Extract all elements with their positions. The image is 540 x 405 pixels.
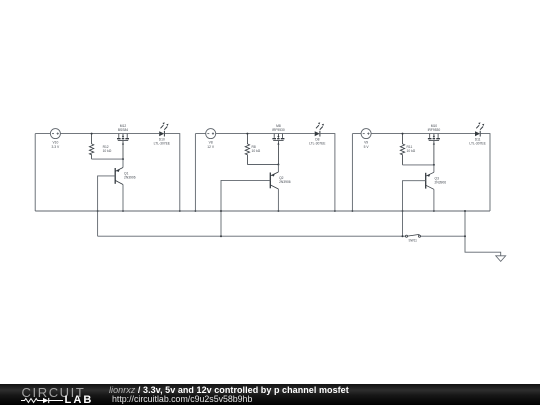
junction Q2 base drop crossing rail (220, 210, 222, 212)
junction resistor R12 top (91, 133, 93, 135)
label Q1 2N3906 (124, 172, 136, 180)
junction left edge block 3 at rail (351, 210, 353, 212)
junction gate node 1 (122, 158, 124, 160)
junction Q2 base drop on bus (220, 235, 222, 237)
wire R12 bottom to gate node 1 (92, 158, 123, 160)
voltage source V9 (361, 129, 371, 139)
transistor Q3 (PNP) (426, 172, 434, 189)
title (109, 385, 349, 395)
wire gate node to Q3 emitter (433, 165, 435, 172)
CircuitLab logo (22, 385, 86, 400)
wire bus to ground drop (465, 211, 501, 256)
url (112, 394, 252, 404)
wire right edge block 2 (320, 134, 335, 211)
junction resistor R11 top (402, 133, 404, 135)
switch SW11 (406, 234, 421, 237)
transistor Q2 (PNP) (270, 172, 278, 189)
svg-text:2N3906: 2N3906 (435, 181, 447, 185)
label V9 5 V (364, 141, 370, 149)
svg-text:3.3 V: 3.3 V (52, 145, 60, 149)
label Q3 2N3906 (435, 177, 447, 185)
label R12 10 kΩ (103, 145, 112, 153)
wire R8 bottom to gate node 2 (247, 164, 278, 166)
LED D8 (315, 122, 324, 136)
LED D11 (475, 122, 484, 136)
wire Q1 base to bus drop (98, 176, 116, 236)
wire Q2 base to bus drop (221, 180, 270, 236)
wire Q3 base to bus drop (403, 181, 426, 237)
svg-text:10 kΩ: 10 kΩ (103, 149, 112, 153)
label D11 LTL-307EE (469, 137, 486, 145)
svg-text:LTL-307EE: LTL-307EE (309, 141, 326, 145)
svg-text:5 V: 5 V (364, 145, 370, 149)
wire gate node to Q2 emitter (277, 165, 279, 173)
wire right edge block 1 (164, 134, 179, 211)
label M8 IRF9530 (272, 124, 285, 132)
voltage source V10 (50, 129, 60, 139)
wire left edge block 2 (195, 134, 205, 211)
voltage source V8 (206, 129, 216, 139)
junction collector Q2 at rail (277, 210, 279, 212)
wire top supply rail block 3 (371, 133, 475, 135)
junction left edge block 2 at rail (194, 210, 196, 212)
wire left edge block 3 (352, 134, 361, 211)
junction right edge block 3 at rail (402, 210, 404, 212)
p-channel MOSFET M10 (428, 134, 440, 165)
junction gate node 2 (277, 164, 279, 166)
wire left edge block 1 (35, 134, 50, 211)
svg-text:LTL-307EE: LTL-307EE (469, 141, 486, 145)
junction ground drop at bus (464, 235, 466, 237)
wire Q2 collector to ground rail (277, 189, 279, 211)
label V10 3.3 V (52, 141, 60, 149)
ground symbol (496, 256, 506, 262)
logo LAB (65, 394, 94, 405)
wire top supply rail block 1 (60, 133, 159, 135)
label Q2 2N3906 (279, 176, 291, 184)
svg-text:SW11: SW11 (408, 238, 417, 242)
resistor R8 (245, 134, 249, 165)
svg-text:10 kΩ: 10 kΩ (407, 149, 416, 153)
p-channel MOSFET M12 (117, 134, 129, 160)
wire Q1 collector to ground rail (122, 185, 124, 212)
p-channel MOSFET M8 (272, 134, 284, 165)
junction right edge block 1 at rail (179, 210, 181, 212)
wire gate node to Q1 emitter (122, 159, 124, 167)
junction collector Q3 at rail (433, 210, 435, 212)
wire common bottom rail (35, 210, 490, 212)
logo squiggle (resistor + diode) (21, 397, 69, 404)
junction resistor R8 top (246, 133, 248, 135)
svg-text:2N3906: 2N3906 (124, 176, 136, 180)
label D10 LTL-307EE (154, 137, 171, 145)
junction ground drop at rail (464, 210, 466, 212)
svg-text:BSS84: BSS84 (118, 128, 128, 132)
junction left edge block 1 at rail (97, 210, 99, 212)
junction gate node 3 (433, 164, 435, 166)
svg-text:IRF9530: IRF9530 (272, 128, 285, 132)
svg-text:2N3906: 2N3906 (279, 180, 291, 184)
svg-text:10 kΩ: 10 kΩ (252, 149, 261, 153)
wire top supply rail block 2 (216, 133, 315, 135)
label R11 10 kΩ (407, 145, 416, 153)
wire right edge block 3 (480, 134, 490, 211)
junction Q3 base drop on bus (402, 235, 404, 237)
junction right edge block 2 at rail (334, 210, 336, 212)
label V8 12 V (207, 141, 215, 149)
label M10 IRF9530 (428, 124, 441, 132)
resistor R12 (89, 134, 93, 160)
svg-text:LTL-307EE: LTL-307EE (154, 141, 171, 145)
label D8 LTL-307EE (309, 137, 326, 145)
LED D10 (159, 122, 168, 136)
resistor R11 (400, 134, 404, 165)
transistor Q1 (PNP) (115, 168, 123, 185)
label M12 BSS84 (118, 124, 128, 132)
wire base bus (98, 235, 465, 237)
wire R11 bottom to gate node 3 (403, 164, 434, 166)
wire Q3 collector to ground rail (433, 189, 435, 211)
svg-text:12 V: 12 V (207, 145, 215, 149)
svg-text:IRF9530: IRF9530 (428, 128, 441, 132)
junction collector Q1 at rail (122, 210, 124, 212)
label R8 10 kΩ (252, 145, 261, 153)
